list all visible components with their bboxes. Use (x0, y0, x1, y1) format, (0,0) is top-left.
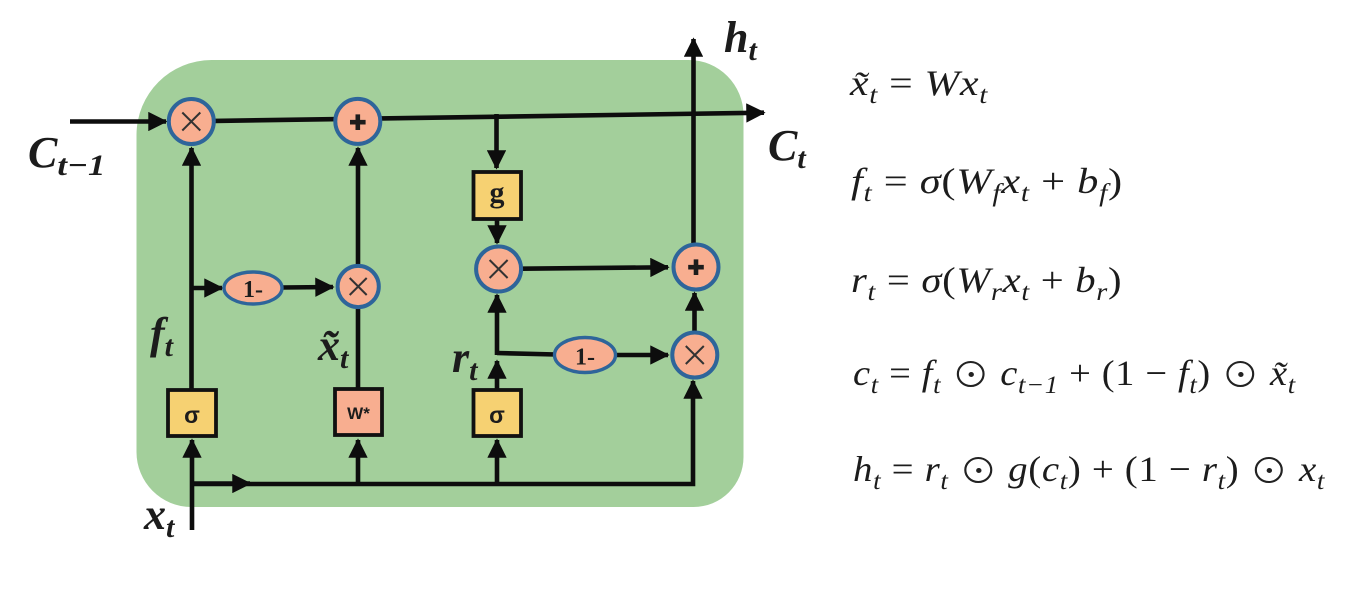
wire C input (70, 119, 166, 124)
wire sigma-r to r junction (495, 361, 500, 390)
one-minus ellipse f (224, 272, 282, 304)
svg-text:g: g (490, 176, 505, 209)
wire x_t input (190, 484, 195, 530)
wire r junction to times-c (495, 295, 500, 355)
times-h node (672, 333, 717, 378)
equation 1: x-tilde_t = W x_t (850, 62, 988, 104)
equation 4: c_t = f_t odot c_t-1 + (1 - f_t) odot x-tilde_t (853, 352, 1296, 394)
svg-text:1-: 1- (243, 277, 263, 303)
one-minus ellipse r (555, 338, 616, 373)
cell body (green rounded rectangle) (137, 60, 744, 507)
wire times-c to plus-h (522, 267, 668, 268)
sigma-r box (474, 390, 522, 436)
wire bottom bus arrow (194, 481, 250, 486)
times-c node (476, 247, 521, 292)
wire C main line (191, 113, 764, 122)
wire into sigma-f (190, 440, 195, 484)
wire times-x to plus (356, 148, 361, 264)
svg-text:Ct−1: Ct−1 (28, 128, 105, 182)
g box (474, 172, 522, 219)
svg-text:ht: ht (724, 13, 758, 67)
wire h output (691, 39, 696, 244)
wire main line to g (494, 114, 499, 168)
wire 1-minus to times-x (282, 285, 333, 290)
svg-text:1-: 1- (575, 345, 595, 371)
svg-text:W*: W* (347, 404, 370, 423)
times-f node (169, 99, 214, 144)
equation 3: r_t = sigma(W_r x_t + b_r) (851, 259, 1122, 301)
wire r branch to 1-minus-2 (497, 353, 556, 355)
wire g to times-c (495, 219, 500, 243)
plus-h node (674, 245, 719, 290)
times-x node (338, 266, 379, 307)
wire into sigma-r (495, 440, 500, 484)
sigma-f box (168, 390, 216, 436)
wire Wstar to times-x (356, 309, 361, 389)
plus node top (335, 99, 380, 144)
equation 5: h_t = r_t odot g(c_t) + (1 - r_t) odot x_t (853, 448, 1325, 490)
wire 1-minus-2 to times-h (616, 353, 668, 358)
svg-text:σ: σ (184, 402, 200, 428)
wire f branch to 1-minus (192, 286, 223, 291)
wire bottom bus (192, 381, 693, 484)
wire times-h to plus-h (692, 293, 697, 332)
equation 2: f_t = sigma(W_f x_t + b_f) (851, 160, 1123, 202)
wire sigma-f to times-f (189, 148, 194, 390)
Wstar box (335, 389, 382, 435)
wire into Wstar (356, 440, 361, 484)
svg-text:Ct: Ct (768, 121, 807, 175)
svg-text:σ: σ (489, 402, 505, 428)
